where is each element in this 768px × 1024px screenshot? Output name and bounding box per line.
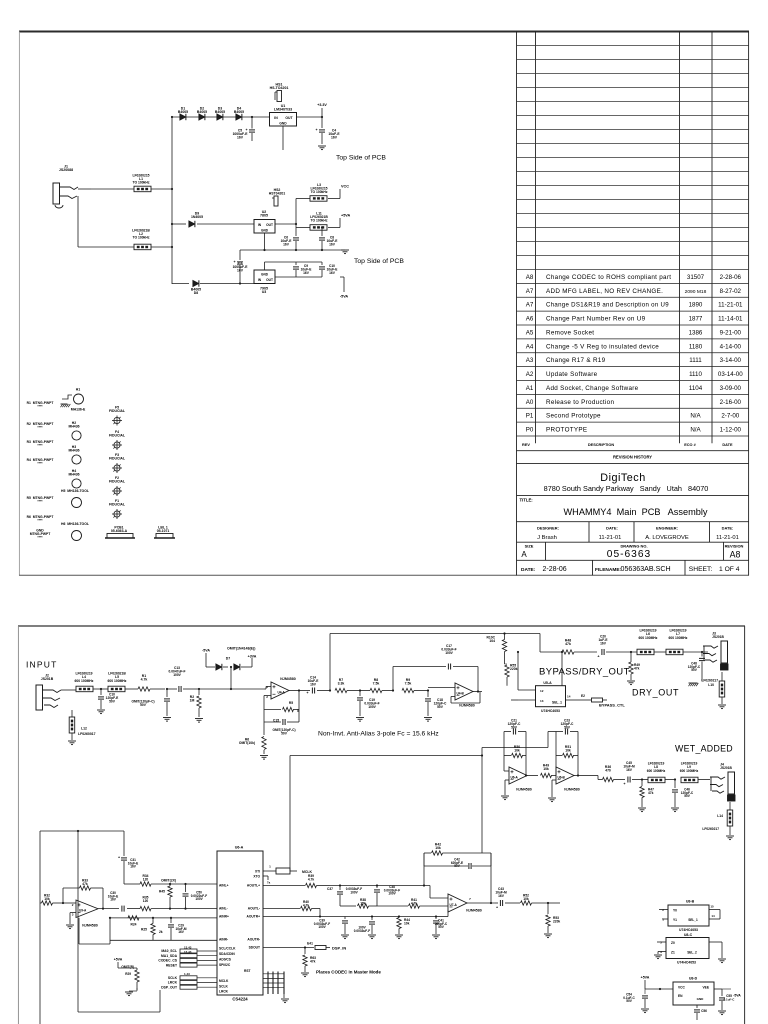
resistor R38: [340, 898, 377, 908]
svg-text:1111: 1111: [689, 357, 702, 364]
svg-text:LF0260217: LF0260217: [702, 827, 719, 831]
svg-text:16V: 16V: [130, 865, 136, 869]
diode D4: [234, 107, 244, 121]
svg-text:A4: A4: [526, 343, 534, 350]
svg-text:3: 3: [266, 685, 268, 689]
capacitor C46 shunt: [671, 778, 694, 811]
omit note 2x: [161, 879, 176, 883]
svg-text:50V: 50V: [438, 925, 444, 929]
svg-text:4-14-00: 4-14-00: [720, 343, 742, 350]
svg-text:A2: A2: [526, 371, 534, 378]
resistor R52: [521, 894, 549, 906]
svg-text:2-7-00: 2-7-00: [721, 413, 739, 420]
svg-text:10k: 10k: [543, 767, 549, 771]
designer row: [537, 526, 739, 541]
svg-text:PROTOTYPE: PROTOTYPE: [546, 427, 587, 434]
svg-text:A5: A5: [526, 329, 534, 336]
svg-text:****: ****: [37, 536, 43, 540]
svg-text:RESET: RESET: [166, 963, 177, 967]
resistor R7: [329, 678, 360, 693]
svg-text:100V: 100V: [445, 651, 453, 655]
svg-text:R25: R25: [141, 928, 147, 932]
power +5VA codec: [114, 958, 134, 970]
svg-text:1: 1: [662, 918, 664, 922]
svg-text:Non-Invt. Anti-Alias 3-pole Fc: Non-Invt. Anti-Alias 3-pole Fc = 15.6 kH…: [318, 731, 439, 738]
svg-text:U74HC4053: U74HC4053: [679, 928, 698, 932]
svg-text:1890: 1890: [689, 302, 703, 309]
svg-text:-5VA: -5VA: [733, 994, 741, 998]
svg-text:SEL_1: SEL_1: [552, 701, 562, 705]
fiducial F5: [109, 406, 125, 426]
svg-text:47k: 47k: [648, 791, 654, 795]
svg-text:NJM4580: NJM4580: [564, 788, 579, 792]
svg-text:TO 100kHz: TO 100kHz: [310, 190, 327, 194]
svg-text:Update Software: Update Software: [546, 371, 598, 378]
capacitor C7: [233, 250, 249, 284]
capacitor C41: [432, 910, 448, 939]
svg-text:50V: 50V: [511, 725, 518, 729]
svg-text:A0: A0: [526, 399, 534, 406]
svg-text:Y1: Y1: [673, 918, 677, 922]
revision history rows text: [526, 274, 744, 434]
svg-text:+: +: [233, 260, 235, 264]
capacitor C56 inner: [694, 1005, 707, 1020]
svg-text:N/A: N/A: [690, 427, 701, 434]
svg-text:DigiTech: DigiTech: [600, 472, 645, 484]
ground under C4: [318, 146, 326, 150]
svg-text:RST: RST: [244, 969, 251, 973]
svg-text:GND: GND: [279, 122, 287, 126]
svg-text:+: +: [118, 856, 120, 860]
svg-text:AOUTR-: AOUTR-: [247, 938, 260, 942]
diode pair D7: [202, 647, 264, 691]
svg-text:LF0260017: LF0260017: [78, 732, 96, 736]
wire codec aout2: [263, 909, 345, 918]
power label +3.3V: [317, 103, 327, 107]
svg-text:DATE:: DATE:: [521, 567, 536, 573]
svg-text:JS20088: JS20088: [59, 168, 73, 172]
svg-text:1M: 1M: [190, 699, 195, 703]
mounting hole H1: [61, 388, 86, 412]
svg-text:U3: U3: [262, 290, 267, 294]
resistor R32 input: [40, 894, 60, 906]
svg-text:JS201B: JS201B: [41, 677, 54, 681]
svg-text:E2: E2: [581, 694, 585, 698]
svg-text:TO 100kHz: TO 100kHz: [310, 219, 327, 223]
svg-text:Second Prototype: Second Prototype: [546, 413, 601, 420]
svg-text:U6-A: U6-A: [511, 776, 519, 780]
svg-text:Z1: Z1: [671, 951, 675, 955]
svg-text:DSP_IN: DSP_IN: [332, 946, 346, 951]
svg-text:1877: 1877: [689, 316, 703, 323]
svg-text:SPI/I2C: SPI/I2C: [219, 963, 231, 967]
table header row: [522, 443, 733, 447]
mux U8-C: [654, 933, 726, 964]
svg-text:R24: R24: [131, 923, 137, 927]
svg-text:NJM4580: NJM4580: [516, 788, 531, 792]
svg-text:220k: 220k: [553, 920, 560, 924]
svg-text:A8: A8: [730, 549, 741, 559]
svg-text:GND: GND: [697, 997, 705, 1001]
resistor R2 shunt: [190, 688, 231, 722]
svg-text:05-6363: 05-6363: [607, 549, 651, 560]
ground top side 2: [341, 250, 349, 254]
svg-text:7805: 7805: [260, 214, 268, 218]
svg-text:WET_ADDED: WET_ADDED: [675, 744, 733, 754]
capacitor C18 omit: [131, 688, 171, 721]
feedback resistor R51: [556, 745, 578, 776]
power label VCC: [341, 185, 349, 189]
svg-text:Change -5 V Reg to insulated d: Change -5 V Reg to insulated device: [546, 343, 659, 350]
svg-text:3: 3: [660, 950, 662, 954]
regulator U1: [270, 104, 297, 150]
text INPUT: [26, 660, 58, 670]
svg-text:-5VA: -5VA: [340, 295, 349, 299]
svg-text:13: 13: [540, 699, 544, 703]
svg-text:100V: 100V: [195, 897, 203, 901]
svg-text:R45: R45: [159, 890, 165, 894]
svg-text:16V: 16V: [626, 768, 633, 772]
svg-text:H1: H1: [76, 388, 80, 392]
svg-text:-5VA: -5VA: [202, 649, 210, 653]
text Top Side of PCB lower: [354, 258, 404, 265]
svg-text:JS201B: JS201B: [720, 766, 732, 770]
svg-text:FIDUCIAL: FIDUCIAL: [109, 434, 125, 438]
resistor R8: [360, 678, 393, 693]
text Top Side of PCB upper: [336, 155, 386, 162]
svg-text:50V: 50V: [437, 705, 444, 709]
series resistor R49b: [541, 764, 557, 778]
svg-text:A6: A6: [526, 316, 534, 323]
svg-text:MH136-E: MH136-E: [71, 408, 86, 412]
svg-text:LRCK: LRCK: [168, 981, 178, 985]
capacitor C13 series: [167, 666, 199, 692]
svg-text:Places CODEC in Master Mode: Places CODEC in Master Mode: [316, 970, 381, 975]
svg-text:MA1_SDA: MA1_SDA: [161, 954, 178, 958]
svg-text:BYPASS/DRY_OUT: BYPASS/DRY_OUT: [539, 667, 630, 678]
resistor R55 riser: [505, 664, 518, 686]
svg-text:A. LOVEGROVE: A. LOVEGROVE: [645, 535, 689, 541]
svg-text:GND: GND: [261, 273, 269, 277]
svg-text:ENGINEER:: ENGINEER:: [656, 526, 678, 531]
heatsink HS1: [270, 83, 289, 102]
svg-text:LM340T/33: LM340T/33: [274, 108, 292, 112]
svg-text:600 100MHz: 600 100MHz: [75, 679, 94, 683]
svg-text:H6 MH136-TOOL: H6 MH136-TOOL: [61, 522, 89, 526]
svg-text:Change DS1&R19 and Description: Change DS1&R19 and Description on U9: [546, 302, 669, 309]
op-amp U4-A: [264, 677, 300, 699]
svg-text:Remove Socket: Remove Socket: [546, 329, 594, 336]
svg-text:AINL-: AINL-: [219, 907, 228, 911]
wire riser to bypass row: [330, 634, 540, 691]
svg-text:DRY_OUT: DRY_OUT: [632, 688, 679, 698]
svg-text:AD0/CS: AD0/CS: [219, 958, 232, 962]
svg-text:11-21-01: 11-21-01: [716, 535, 739, 541]
svg-text:FIDUCIAL: FIDUCIAL: [109, 409, 125, 413]
svg-text:A: A: [521, 550, 527, 559]
svg-text:A1: A1: [526, 385, 534, 392]
svg-text:100V: 100V: [368, 705, 376, 709]
svg-text:DESIGNER:: DESIGNER:: [537, 526, 559, 531]
svg-text:FIDUCIAL: FIDUCIAL: [109, 457, 125, 461]
svg-text:47k: 47k: [634, 667, 640, 671]
svg-text:1104: 1104: [689, 385, 703, 392]
feedback capacitor C15 omit: [264, 710, 299, 736]
svg-text:16V: 16V: [310, 682, 317, 686]
svg-text:J Brash: J Brash: [537, 535, 557, 541]
svg-text:TO 100kHz: TO 100kHz: [132, 181, 149, 185]
svg-text:P1: P1: [526, 413, 534, 420]
svg-text:U5-A: U5-A: [543, 681, 552, 685]
svg-text:CS4224: CS4224: [232, 997, 248, 1002]
mounting hole H4: [68, 469, 81, 488]
net DSP_IN: [263, 942, 346, 951]
svg-text:03-14-00: 03-14-00: [718, 371, 743, 378]
text master mode note: [316, 970, 381, 975]
text DRY_OUT: [632, 688, 679, 698]
svg-text:DATE:: DATE:: [722, 526, 734, 531]
svg-text:OMIT(10k): OMIT(10k): [239, 741, 255, 745]
op-amp U9-A: [60, 900, 119, 929]
wire diode row: [171, 116, 270, 118]
ferrite bead L3: [310, 183, 340, 201]
svg-text:L12: L12: [81, 727, 87, 731]
svg-text:16V: 16V: [303, 271, 310, 275]
capacitor C30 series: [108, 891, 140, 912]
svg-text:600 100MHz: 600 100MHz: [647, 769, 666, 773]
capacitor C55 right: [714, 989, 735, 1015]
page 2 sheet border: [18, 626, 745, 1024]
svg-text:+: +: [315, 128, 317, 132]
mounting pad labels column: [27, 401, 54, 540]
feedback capacitor C17: [393, 644, 478, 692]
ferrite bead L1: [91, 174, 172, 192]
resistor pack E2 bypass ctl: [580, 694, 607, 702]
svg-text:Top Side of PCB: Top Side of PCB: [336, 155, 386, 162]
svg-text:VCC: VCC: [341, 185, 349, 189]
svg-text:LRCK: LRCK: [219, 990, 229, 994]
svg-text:600 100MHz: 600 100MHz: [669, 636, 688, 640]
svg-text:3: 3: [72, 913, 74, 917]
svg-text:XTI: XTI: [255, 870, 260, 874]
svg-text:SEL_2: SEL_2: [687, 951, 697, 955]
capacitor C45 series: [623, 761, 642, 786]
power -5VA mux: [722, 989, 741, 998]
wire bypass chain: [540, 634, 561, 653]
revision history caption: [613, 454, 652, 459]
svg-text:NJM4580: NJM4580: [280, 677, 295, 681]
svg-text:12: 12: [540, 689, 544, 693]
svg-text:VEE: VEE: [702, 986, 709, 990]
capacitor C48 shunt: [688, 651, 705, 686]
svg-text:U6-B: U6-B: [558, 776, 566, 780]
svg-text:L10: L10: [708, 683, 714, 687]
ferrite bead L10: [701, 672, 726, 709]
capacitor C10 shunt: [97, 688, 119, 714]
wire ground rail U2: [240, 249, 345, 251]
svg-text:A8: A8: [526, 274, 534, 281]
svg-text:+3VA: +3VA: [248, 655, 257, 659]
svg-text:GND: GND: [261, 229, 269, 233]
svg-text:AOUTR+: AOUTR+: [247, 915, 261, 919]
svg-text:2: 2: [72, 903, 74, 907]
svg-text:16V: 16V: [178, 930, 184, 934]
svg-text:U8-C: U8-C: [684, 933, 693, 937]
svg-text:10k: 10k: [404, 922, 410, 926]
svg-text:+: +: [245, 128, 247, 132]
capacitor C54: [623, 989, 649, 1013]
svg-text:11-14-01: 11-14-01: [718, 316, 743, 323]
svg-text:Change CODEC to ROHS compliant: Change CODEC to ROHS compliant part: [546, 274, 671, 281]
svg-text:16V: 16V: [329, 242, 336, 246]
svg-text:2090 M18: 2090 M18: [685, 289, 707, 295]
wire codec ainr minus: [110, 939, 217, 941]
mounting hole H2: [68, 421, 81, 440]
resistor R34: [124, 874, 217, 886]
wire U2 output node: [275, 199, 310, 226]
crystal X1: [263, 865, 312, 881]
svg-text:NJM4580: NJM4580: [459, 704, 474, 708]
svg-text:Y0: Y0: [673, 909, 677, 913]
company block DigiTech: [544, 472, 709, 493]
text BYPASS/DRY_OUT: [539, 667, 630, 678]
capacitor C38: [374, 884, 430, 906]
svg-text:10k: 10k: [523, 897, 529, 901]
svg-text:L14: L14: [717, 814, 723, 818]
ferrite bead L5: [101, 672, 138, 692]
svg-text:1,43: 1,43: [184, 972, 190, 976]
svg-text:SCLK: SCLK: [168, 976, 178, 980]
heatsink HS2: [269, 188, 286, 206]
power label +5VA: [341, 214, 350, 218]
svg-text:05-6363-A: 05-6363-A: [111, 529, 128, 533]
svg-text:2: 2: [662, 908, 664, 912]
svg-text:D7: D7: [226, 657, 230, 661]
svg-text:11-21-01: 11-21-01: [599, 535, 622, 541]
svg-text:16V: 16V: [329, 271, 336, 275]
svg-text:4.7k: 4.7k: [308, 878, 315, 882]
svg-text:R5: R5: [289, 701, 293, 705]
svg-text:8780 South Sandy Parkway San: 8780 South Sandy Parkway Sandy Utah 8407…: [544, 484, 709, 493]
svg-text:120: 120: [143, 878, 149, 882]
svg-text:NJM4580: NJM4580: [82, 924, 97, 928]
resistor R63: [301, 946, 316, 976]
svg-text:OUT: OUT: [285, 116, 293, 120]
revision table grid: [517, 32, 749, 576]
op-amp U6-A wet: [504, 767, 538, 795]
svg-text:D8: D8: [194, 291, 198, 295]
capacitor C40: [345, 915, 376, 938]
svg-text:DATE: DATE: [722, 443, 733, 447]
svg-text:DESCRIPTION: DESCRIPTION: [588, 443, 614, 447]
svg-text:8-27-02: 8-27-02: [720, 288, 742, 295]
svg-text:U74HC4053: U74HC4053: [677, 960, 696, 964]
capacitor C6 filter: [281, 224, 299, 250]
svg-text:16V: 16V: [237, 136, 244, 140]
svg-text:A3: A3: [526, 357, 534, 364]
ferrite bead L11: [296, 212, 340, 231]
svg-text:SCL/CCLK: SCL/CCLK: [219, 947, 236, 951]
feedback capacitor C23: [548, 719, 578, 772]
pcb outline PCB1: [105, 526, 135, 539]
capacitor C31 bias: [118, 831, 138, 884]
resistor R39: [263, 874, 330, 888]
svg-text:+: +: [496, 906, 498, 910]
diode D9: [172, 212, 254, 228]
svg-text:1: 1: [269, 865, 271, 869]
resistor R40: [263, 900, 320, 911]
svg-text:600 100MHz: 600 100MHz: [639, 636, 658, 640]
svg-text:10k: 10k: [565, 749, 571, 753]
svg-text:15: 15: [710, 905, 714, 909]
svg-text:1N4005: 1N4005: [191, 215, 203, 219]
svg-text:3.3k: 3.3k: [338, 682, 345, 686]
capacitor C37: [327, 884, 377, 906]
svg-text:U9-A: U9-A: [79, 909, 87, 913]
resistor R9: [392, 678, 428, 693]
svg-text:U8-D: U8-D: [689, 977, 698, 981]
ferrite bead L6: [637, 629, 666, 655]
svg-text:5: 5: [660, 941, 662, 945]
svg-text:+3.3V: +3.3V: [317, 103, 327, 107]
regulator U3: [254, 262, 275, 294]
svg-text:TO 100kHz: TO 100kHz: [132, 236, 149, 240]
ferrite bead L8: [642, 762, 675, 783]
svg-text:MA0_SCL: MA0_SCL: [161, 949, 177, 953]
resistor R24: [128, 916, 139, 927]
regulator U2: [254, 210, 275, 250]
svg-text:3-14-00: 3-14-00: [720, 357, 742, 364]
svg-text:0.0033uF-F: 0.0033uF-F: [354, 929, 370, 933]
svg-text:31507: 31507: [687, 274, 705, 281]
connector J1: [53, 165, 91, 209]
svg-text:REV: REV: [522, 443, 530, 447]
svg-text:47k: 47k: [565, 642, 571, 646]
svg-text:7.5k: 7.5k: [405, 682, 412, 686]
svg-text:600 100MHz: 600 100MHz: [680, 769, 699, 773]
resistor R48: [562, 639, 597, 655]
svg-text:1386: 1386: [689, 329, 703, 336]
svg-text:H5 MH136-TOOL: H5 MH136-TOOL: [61, 489, 89, 493]
svg-text:MH436: MH436: [68, 449, 79, 453]
svg-text:DRAWING NO.: DRAWING NO.: [620, 544, 647, 549]
svg-text:REVISION HISTORY: REVISION HISTORY: [613, 454, 652, 459]
svg-text:SHEET:: SHEET:: [689, 566, 713, 573]
svg-text:FILENAME:: FILENAME:: [595, 567, 622, 573]
resistor R45 shunt: [159, 883, 172, 910]
svg-text:100V: 100V: [388, 892, 396, 896]
feedback resistor R33: [62, 879, 104, 910]
connector J2: [36, 674, 76, 711]
svg-text:16V: 16V: [110, 898, 116, 902]
svg-text:EN: EN: [678, 994, 683, 998]
svg-text:470: 470: [605, 769, 611, 773]
capacitor C5: [233, 116, 255, 141]
svg-text:SDA/CDIN: SDA/CDIN: [219, 952, 235, 956]
svg-text:BYPASS_CTL: BYPASS_CTL: [599, 702, 625, 707]
svg-text:AOUTL-: AOUTL-: [248, 907, 260, 911]
svg-text:DSP_OUT: DSP_OUT: [161, 985, 177, 989]
svg-text:47k: 47k: [310, 960, 316, 964]
capacitor C14 series: [299, 676, 330, 696]
op-amp U6-B wet: [552, 767, 586, 797]
resistor R35: [140, 896, 217, 911]
mux U8-D power: [641, 976, 714, 1006]
svg-text:7.5k: 7.5k: [373, 682, 380, 686]
svg-text:AINR-: AINR-: [219, 938, 228, 942]
svg-text:U8-B: U8-B: [686, 900, 695, 904]
svg-text:OMIT(2X): OMIT(2X): [161, 879, 176, 883]
